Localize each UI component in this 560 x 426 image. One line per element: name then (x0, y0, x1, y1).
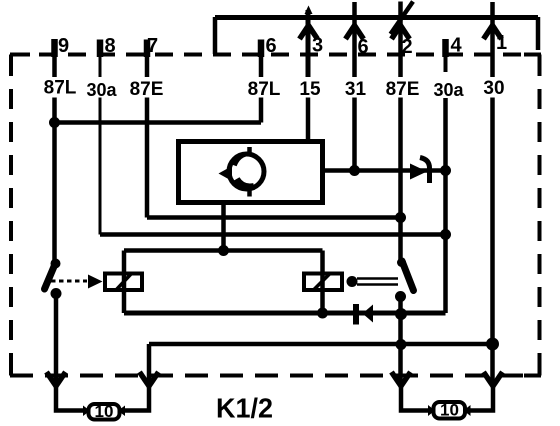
svg-text:1: 1 (496, 32, 507, 54)
svg-text:10: 10 (440, 401, 459, 420)
svg-text:87L: 87L (44, 78, 77, 99)
svg-text:15: 15 (299, 79, 321, 100)
svg-text:30a: 30a (86, 80, 117, 100)
svg-text:K1/2: K1/2 (216, 393, 273, 424)
svg-text:87L: 87L (248, 79, 281, 100)
svg-text:31: 31 (345, 79, 367, 100)
svg-text:87E: 87E (386, 79, 420, 100)
svg-text:9: 9 (58, 35, 69, 57)
svg-text:30a: 30a (433, 80, 464, 100)
svg-text:87E: 87E (130, 79, 164, 100)
svg-text:3: 3 (312, 35, 323, 57)
svg-text:8: 8 (104, 35, 115, 57)
svg-text:6: 6 (265, 35, 276, 57)
svg-text:6: 6 (357, 36, 368, 58)
svg-text:4: 4 (450, 35, 462, 57)
svg-text:10: 10 (95, 402, 114, 421)
svg-text:7: 7 (147, 35, 158, 57)
svg-text:30: 30 (483, 78, 504, 99)
svg-text:2: 2 (401, 36, 412, 58)
